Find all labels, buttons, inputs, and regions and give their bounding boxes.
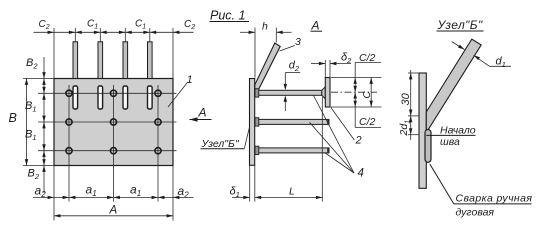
svg-text:1: 1 — [187, 74, 193, 86]
stud 2 — [98, 42, 103, 79]
svg-text:B2: B2 — [26, 57, 38, 71]
stud slot 3 in plate — [123, 86, 128, 109]
view label A above side view — [311, 19, 323, 33]
svg-text:B2: B2 — [28, 168, 40, 182]
label a1 left — [86, 183, 97, 199]
L dimension — [255, 97, 322, 202]
svg-text:a1: a1 — [130, 183, 141, 199]
stud 1 — [73, 42, 78, 79]
plate 1 front view — [54, 79, 173, 166]
svg-text:2: 2 — [355, 135, 362, 147]
detail plate bar — [419, 73, 426, 188]
view arrow A (front) — [190, 106, 212, 122]
weld block row 1 — [255, 89, 259, 97]
svg-text:δ1: δ1 — [230, 186, 240, 200]
B chain dimension line — [42, 57, 45, 193]
label A bottom — [109, 205, 118, 217]
detail diagonal stud — [426, 39, 481, 133]
svg-text:A: A — [311, 19, 320, 33]
Uzel B callout (side view) — [201, 127, 250, 150]
stud slot 2 in plate — [98, 86, 103, 109]
weld block row 2 — [255, 118, 259, 126]
svg-text:Сварка ручная: Сварка ручная — [456, 193, 533, 205]
svg-text:C/2: C/2 — [359, 52, 376, 64]
anchor circles row 3 — [66, 148, 161, 154]
label B2 bottom — [28, 168, 40, 182]
svg-text:L: L — [289, 186, 295, 198]
svg-text:A: A — [109, 205, 118, 217]
anchor circles row 1 — [66, 90, 161, 96]
row centerline 3 — [38, 150, 177, 152]
2d1 dimension — [398, 116, 419, 137]
label a2 left — [35, 184, 47, 200]
label 3 with leader — [280, 36, 302, 51]
svg-text:дуговая: дуговая — [456, 207, 495, 219]
plate side bar — [250, 79, 255, 166]
svg-text:d2: d2 — [289, 60, 300, 74]
top dimension line C2 C1 C1 C2 — [34, 28, 194, 79]
stud 4 — [148, 42, 153, 79]
svg-text:h: h — [262, 21, 268, 33]
label C1 left — [87, 19, 98, 31]
svg-text:C1: C1 — [135, 19, 146, 31]
bottom chain dimension a2 a1 a1 a2 — [33, 166, 194, 221]
svg-text:B: B — [9, 111, 17, 125]
svg-text:2d1: 2d1 — [398, 120, 412, 137]
svg-text:шва: шва — [440, 136, 460, 148]
label B2 top — [26, 57, 38, 71]
anchor head cone row 1 — [322, 87, 326, 99]
svg-text:Узел"Б": Узел"Б" — [437, 18, 483, 32]
label C2 left — [39, 19, 50, 31]
C/2 lower dimension — [331, 92, 382, 128]
column centerline 3 — [157, 85, 159, 202]
label a1 right — [130, 183, 141, 199]
30 dimension — [400, 70, 419, 140]
label B — [9, 111, 17, 125]
label C1 right — [135, 19, 146, 31]
weld bead — [425, 130, 431, 163]
delta2 dimension — [311, 52, 352, 78]
anchor bar row 2 (side view) — [255, 119, 329, 124]
column centerline 1 — [68, 85, 70, 202]
label 4 with leaders — [310, 96, 364, 180]
detail title Uzel B — [437, 18, 484, 32]
C dimension — [362, 78, 373, 108]
B overall dimension — [23, 79, 54, 166]
row centerline 2 — [38, 121, 177, 123]
svg-text:a1: a1 — [86, 183, 97, 199]
svg-text:Рис. 1: Рис. 1 — [210, 9, 245, 23]
label 2 with leader — [331, 108, 362, 147]
svg-text:C2: C2 — [184, 19, 195, 31]
svg-text:Начало: Начало — [440, 125, 476, 137]
label a2 right — [178, 184, 190, 200]
anchor head plate row 1 — [325, 78, 330, 108]
svg-text:3: 3 — [295, 36, 301, 48]
svg-text:C/2: C/2 — [359, 116, 376, 128]
stud slot 4 in plate — [148, 86, 153, 109]
anchor bar row 1 (side view) — [255, 90, 322, 95]
manual arc welding callout — [430, 164, 533, 219]
weld start callout — [426, 125, 475, 149]
leader and label 1 — [168, 74, 193, 107]
label B1 upper — [25, 100, 37, 114]
svg-text:d1: d1 — [496, 56, 506, 70]
svg-text:δ2: δ2 — [341, 52, 352, 66]
svg-text:A: A — [198, 106, 207, 120]
row centerline 1 — [38, 92, 177, 94]
label B1 lower — [25, 129, 37, 143]
A overall width dimension — [54, 214, 173, 217]
svg-text:C2: C2 — [39, 19, 50, 31]
stud slot 1 in plate — [73, 86, 78, 109]
head centerline dash-dot — [331, 91, 377, 93]
anchor circles row 2 — [66, 119, 161, 125]
delta1 dimension — [230, 165, 255, 201]
anchor bar row 3 (side view) — [255, 148, 329, 153]
C/2 upper dimension — [331, 52, 382, 128]
d1 dimension — [452, 42, 511, 69]
svg-text:a2: a2 — [35, 184, 47, 200]
column centerline 2 — [113, 85, 115, 202]
svg-text:a2: a2 — [178, 184, 190, 200]
diagonal stud 3 (side view) — [255, 43, 280, 97]
svg-text:C1: C1 — [87, 19, 98, 31]
weld block row 3 — [255, 146, 259, 154]
svg-text:4: 4 — [358, 168, 364, 180]
title Рис. 1 — [210, 9, 250, 23]
svg-text:30: 30 — [400, 92, 412, 105]
svg-text:B1: B1 — [25, 100, 37, 114]
svg-text:C: C — [362, 91, 373, 99]
stud 3 — [123, 42, 128, 79]
d2 dimension — [284, 60, 301, 112]
label C2 right — [184, 19, 195, 31]
svg-text:B1: B1 — [25, 129, 37, 143]
h dimension — [240, 21, 292, 78]
